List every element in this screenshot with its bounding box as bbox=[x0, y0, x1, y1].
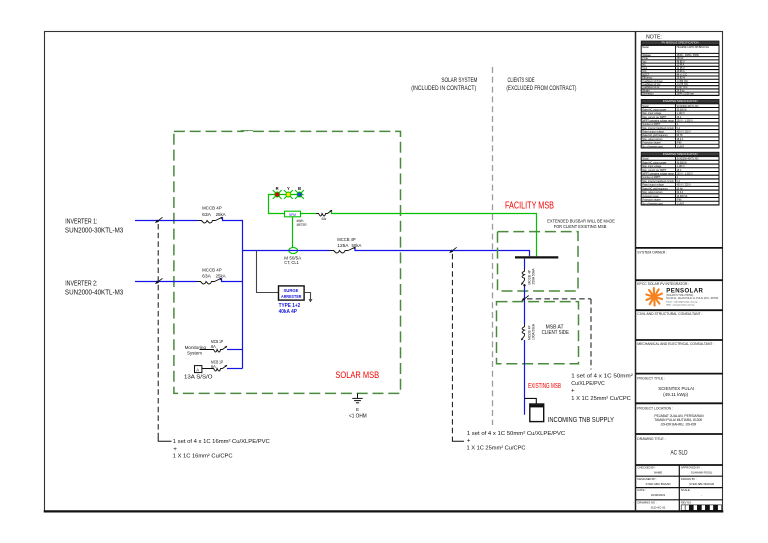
svg-text:26 A: 26 A bbox=[677, 116, 682, 119]
svg-text:CIVIL AND STRUCTURAL CONSULTAN: CIVIL AND STRUCTURAL CONSULTANT : bbox=[637, 312, 702, 316]
svg-text:CLIENT SIDE: CLIENT SIDE bbox=[542, 330, 570, 336]
svg-text:Max. current per MPPT: Max. current per MPPT bbox=[642, 169, 667, 172]
svg-text:64.3 A: 64.3 A bbox=[677, 191, 684, 194]
svg-text:(INCLUDED IN CONTRACT): (INCLUDED IN CONTRACT) bbox=[411, 86, 476, 92]
title block bottom grid bbox=[678, 465, 680, 512]
svg-text:400 V / 230 V: 400 V / 230 V bbox=[677, 132, 692, 134]
svg-text:MPPT operating voltage range: MPPT operating voltage range bbox=[642, 120, 674, 123]
svg-text:Rated AC output power: Rated AC output power bbox=[642, 161, 666, 164]
svg-text:SUN2000-30KTL-M3: SUN2000-30KTL-M3 bbox=[677, 106, 699, 108]
svg-text:CHECKED BY :: CHECKED BY : bbox=[637, 466, 656, 470]
svg-text:13A S/S/O: 13A S/S/O bbox=[184, 374, 213, 380]
svg-text:DRAWING TITLE :: DRAWING TITLE : bbox=[637, 437, 665, 441]
svg-text:50 Hz: 50 Hz bbox=[677, 135, 684, 137]
svg-text:Wattage: Wattage bbox=[642, 54, 651, 57]
svg-text:SUN2000-40KTL-M3: SUN2000-40KTL-M3 bbox=[677, 159, 699, 161]
svg-text:6A: 6A bbox=[322, 217, 327, 221]
svg-text:1 X 1C 25mm² Cu/CPC: 1 X 1C 25mm² Cu/CPC bbox=[467, 446, 526, 452]
svg-text:Model: Model bbox=[642, 47, 649, 49]
svg-text:A: A bbox=[196, 368, 199, 373]
svg-text:Pmax: Pmax bbox=[642, 58, 649, 60]
current transformer CT on main bus bbox=[289, 248, 298, 254]
svg-text:REV NO :: REV NO : bbox=[681, 500, 693, 504]
svg-text:Y: Y bbox=[287, 186, 290, 191]
svg-text:<1 OHM: <1 OHM bbox=[349, 413, 367, 419]
svg-text:METER: METER bbox=[297, 223, 307, 227]
svg-text:25kA: 25kA bbox=[216, 212, 227, 218]
revision scale bar bbox=[681, 505, 721, 510]
svg-text:1 UNIT: 1 UNIT bbox=[677, 203, 685, 205]
svg-text:Coefficient of Isc: Coefficient of Isc bbox=[642, 86, 660, 89]
svg-text:MCCB 4P: MCCB 4P bbox=[337, 237, 355, 243]
svg-text:SYED ABU BAKAR: SYED ABU BAKAR bbox=[646, 482, 671, 486]
svg-text:Vmp: Vmp bbox=[642, 68, 647, 70]
main AC bus solar MSB to facility MSB bbox=[243, 250, 330, 252]
svg-text:+: + bbox=[173, 446, 177, 453]
svg-text:JOHOR BAHRU, JOHOR: JOHOR BAHRU, JOHOR bbox=[660, 421, 696, 426]
svg-text:48.2 A: 48.2 A bbox=[677, 138, 684, 141]
svg-text:(49.11 kWp): (49.11 kWp) bbox=[663, 392, 689, 397]
socket outlet box bbox=[195, 366, 202, 373]
svg-text:44,000 VA: 44,000 VA bbox=[677, 195, 688, 198]
svg-text:1,100 V: 1,100 V bbox=[677, 113, 685, 115]
svg-text:Rated AC output power: Rated AC output power bbox=[642, 108, 666, 111]
note table: PV module specification bbox=[641, 41, 719, 96]
svg-text:System: System bbox=[187, 350, 202, 355]
cable marker on client feed bbox=[523, 296, 529, 301]
breaker MCCB 4P 63A 25kA (inverter 2) bbox=[197, 282, 215, 285]
svg-text:49.85 V: 49.85 V bbox=[677, 61, 685, 63]
svg-text:PV MODULE SPECIFICATION: PV MODULE SPECIFICATION bbox=[662, 41, 699, 45]
svg-text:2094 x 1038 mm: 2094 x 1038 mm bbox=[677, 94, 694, 96]
svg-text:Weight: Weight bbox=[642, 89, 650, 92]
svg-text:Number of MPPT: Number of MPPT bbox=[642, 176, 661, 179]
note table: inverter 2 specification bbox=[641, 152, 719, 205]
breaker MCCB 4P (client MSB incoming) bbox=[522, 324, 524, 336]
svg-text:FOR CLIENT EXISTING MSB: FOR CLIENT EXISTING MSB bbox=[554, 224, 607, 229]
svg-text:100A 50kA: 100A 50kA bbox=[532, 323, 536, 340]
svg-text:50 Hz: 50 Hz bbox=[677, 188, 684, 190]
surge arrester SPD box bbox=[279, 286, 305, 300]
svg-text:Max. current per MPPT: Max. current per MPPT bbox=[642, 116, 667, 119]
contract boundary dashed line bbox=[492, 67, 494, 425]
svg-text:IP66: IP66 bbox=[677, 143, 682, 145]
svg-text:(EXCLUDED FROM CONTRACT): (EXCLUDED FROM CONTRACT) bbox=[506, 86, 576, 92]
svg-text:SURGE: SURGE bbox=[284, 288, 299, 293]
svg-text:INCOMING TNB SUPPLY: INCOMING TNB SUPPLY bbox=[548, 415, 614, 424]
wire: incoming supply connector bbox=[525, 398, 537, 404]
breaker MCCB 4P (facility outgoing) bbox=[522, 269, 524, 281]
svg-text:400 V / 230 V: 400 V / 230 V bbox=[677, 185, 692, 187]
svg-text:INVERTER SPECIFICATION: INVERTER SPECIFICATION bbox=[663, 99, 698, 103]
svg-text:NOTE:: NOTE: bbox=[646, 35, 662, 41]
svg-text:IP66: IP66 bbox=[677, 200, 682, 202]
svg-text:SUN2000-40KTL-M3: SUN2000-40KTL-M3 bbox=[65, 287, 123, 296]
svg-text:+: + bbox=[571, 387, 575, 394]
svg-text:Apparent power: Apparent power bbox=[642, 195, 659, 198]
svg-text:EXTENDED BUSBAR WILL BE MADE: EXTENDED BUSBAR WILL BE MADE bbox=[547, 218, 615, 223]
fuse 6A on meter line bbox=[316, 214, 328, 217]
svg-text:Protection degree: Protection degree bbox=[642, 142, 661, 145]
svg-text:EXISTING MSB: EXISTING MSB bbox=[528, 383, 561, 390]
svg-text:B: B bbox=[298, 186, 301, 191]
svg-text:-0.275 %/C: -0.275 %/C bbox=[677, 84, 689, 86]
svg-text:6A: 6A bbox=[211, 344, 216, 349]
svg-text:MECHANICAL AND ELECTRICAL CONS: MECHANICAL AND ELECTRICAL CONSULTANT : bbox=[637, 342, 714, 346]
cable leader dashed line (inverter cables) bbox=[157, 224, 159, 437]
svg-text:Max. input voltage: Max. input voltage bbox=[642, 112, 662, 115]
svg-text:Max. inverter backfeed current: Max. inverter backfeed current bbox=[642, 127, 674, 130]
svg-text:200 V - 1,000 V: 200 V - 1,000 V bbox=[677, 121, 694, 123]
svg-text:CT, CL1: CT, CL1 bbox=[284, 260, 299, 265]
svg-text:450W - 460W / 450W: 450W - 460W / 450W bbox=[677, 55, 700, 57]
cable leader dashed (client cable) bbox=[527, 298, 591, 300]
svg-text:Email : sales@pensolar.com.my: Email : sales@pensolar.com.my bbox=[666, 300, 698, 303]
wire: surge arrester to earth with arrow bbox=[304, 293, 310, 300]
svg-text:INVERTER 2:: INVERTER 2: bbox=[65, 279, 97, 288]
svg-text:Web : www.pensolar.com.my: Web : www.pensolar.com.my bbox=[666, 303, 695, 306]
svg-text:25kA: 25kA bbox=[216, 274, 227, 280]
svg-text:Rated AC grid frequency: Rated AC grid frequency bbox=[642, 134, 668, 137]
svg-text:Max. input voltage: Max. input voltage bbox=[642, 165, 662, 168]
svg-text:DRAWING NO :: DRAWING NO : bbox=[637, 500, 656, 504]
svg-text:No. of inverter used: No. of inverter used bbox=[642, 202, 663, 205]
svg-text:R: R bbox=[276, 186, 279, 191]
svg-text:SOLAR MSB: SOLAR MSB bbox=[335, 369, 379, 380]
svg-text:1 set of 4 x 1C 50mm²: 1 set of 4 x 1C 50mm² bbox=[571, 374, 633, 380]
svg-text:APPROVED BY :: APPROVED BY : bbox=[681, 466, 702, 470]
svg-text:44 +/- 2 C: 44 +/- 2 C bbox=[677, 74, 688, 76]
svg-text:DATE :: DATE : bbox=[637, 488, 646, 492]
title block section divider lines bbox=[636, 247, 723, 249]
svg-text:NO 28-01, JALAN PULAI 11, PULA: NO 28-01, JALAN PULAI 11, PULAI JAYA, JO… bbox=[666, 297, 718, 300]
svg-text:0 A: 0 A bbox=[677, 127, 681, 130]
svg-text:EPCC SOLAR PV INTEGRATOR :: EPCC SOLAR PV INTEGRATOR : bbox=[637, 282, 689, 286]
svg-text:MCCB 4P: MCCB 4P bbox=[202, 268, 222, 274]
svg-text:+: + bbox=[467, 437, 471, 444]
svg-text:SUHAIMI ROSLI: SUHAIMI ROSLI bbox=[691, 471, 713, 475]
PENSOLAR company name and address bbox=[666, 288, 718, 307]
svg-text:PROJECT LOCATION :: PROJECT LOCATION : bbox=[637, 406, 673, 410]
svg-text:30,000 W: 30,000 W bbox=[677, 109, 688, 111]
breaker MCCB 4P 125A 50kA (main) bbox=[330, 251, 349, 254]
wire: inverter 2 AC output bbox=[135, 281, 197, 283]
svg-text:SOLAR SYSTEM: SOLAR SYSTEM bbox=[441, 77, 477, 84]
svg-text:1,100 V: 1,100 V bbox=[677, 166, 685, 168]
PENSOLAR company logo (orange starburst) bbox=[646, 288, 662, 306]
svg-text:AC SLD: AC SLD bbox=[671, 449, 688, 456]
svg-text:24.5 kg: 24.5 kg bbox=[677, 90, 685, 92]
svg-text:63A: 63A bbox=[202, 274, 212, 280]
svg-text:63A: 63A bbox=[202, 212, 212, 218]
kWh meter SPM box bbox=[285, 211, 301, 217]
incoming TNB supply symbol bbox=[530, 404, 544, 422]
wire: meter CT tap (green) bbox=[292, 217, 294, 248]
svg-text:Coefficient of Voc: Coefficient of Voc bbox=[642, 83, 661, 86]
indicator lamp R bbox=[273, 190, 282, 199]
facility MSB dashed enclosure (busbar) bbox=[498, 232, 579, 291]
svg-text:1 X 1C 25mm² Cu/CPC: 1 X 1C 25mm² Cu/CPC bbox=[571, 396, 631, 402]
svg-text:SYSTEM OWNER :: SYSTEM OWNER : bbox=[637, 250, 667, 254]
project title text bbox=[654, 386, 703, 456]
svg-text:200 V - 1,000 V: 200 V - 1,000 V bbox=[677, 174, 694, 176]
breaker MCB 1P (monitoring) bbox=[211, 350, 223, 353]
svg-text:1 set of 4 x 1C 50mm² Cu/XLPE/: 1 set of 4 x 1C 50mm² Cu/XLPE/PVC bbox=[467, 431, 566, 437]
svg-text:NOCT: NOCT bbox=[642, 74, 649, 76]
solar MSB vertical bus bbox=[242, 220, 244, 369]
svg-text:-: - bbox=[701, 493, 702, 497]
svg-text:10.96 A: 10.96 A bbox=[677, 70, 685, 73]
svg-text:SCALE :: SCALE : bbox=[681, 488, 692, 492]
breaker MCCB 4P 63A 25kA (inverter 1) bbox=[198, 221, 216, 224]
svg-text:250A 50kA: 250A 50kA bbox=[532, 268, 536, 285]
svg-text:11.46 A: 11.46 A bbox=[677, 64, 685, 67]
doubled dash artifact on enclosure top edge bbox=[244, 131, 253, 132]
svg-text:ARRESTER: ARRESTER bbox=[281, 294, 302, 299]
svg-text:FACILITY MSB: FACILITY MSB bbox=[505, 201, 554, 212]
SOLAR MSB dashed enclosure bbox=[174, 131, 401, 393]
svg-text:No. of inverter used: No. of inverter used bbox=[642, 145, 663, 148]
svg-text:PENSOLAR: PENSOLAR bbox=[666, 288, 703, 295]
svg-text:SLD-AC-01: SLD-AC-01 bbox=[651, 505, 666, 509]
svg-text:SYED ABU BAKAR: SYED ABU BAKAR bbox=[689, 482, 714, 486]
svg-text:INVERTER 1:: INVERTER 1: bbox=[65, 217, 97, 226]
client MSB dashed enclosure bbox=[497, 302, 579, 364]
cable marker on main bus bbox=[451, 247, 457, 252]
svg-text:Efficiency: Efficiency bbox=[642, 78, 653, 80]
svg-text:SPM: SPM bbox=[289, 213, 296, 217]
svg-text:01/06/2021: 01/06/2021 bbox=[651, 493, 666, 497]
svg-text:Rated output voltage: Rated output voltage bbox=[642, 131, 664, 134]
svg-text:DRAWN BY :: DRAWN BY : bbox=[681, 477, 697, 481]
svg-text:PROJECT TITLE :: PROJECT TITLE : bbox=[637, 377, 665, 381]
svg-text:MPPT operating voltage range: MPPT operating voltage range bbox=[642, 173, 674, 176]
cable marker on inverter 2 feed bbox=[156, 278, 162, 283]
svg-text:Max. inverter backfeed current: Max. inverter backfeed current bbox=[642, 180, 674, 183]
svg-text:1 UNIT: 1 UNIT bbox=[677, 146, 685, 148]
drawing frame border bbox=[45, 32, 723, 512]
svg-text:Protection degree: Protection degree bbox=[642, 199, 661, 202]
svg-text:Rated output voltage: Rated output voltage bbox=[642, 184, 664, 187]
cable marker on inverter 1 feed bbox=[156, 217, 162, 222]
wire: meter to facility (green) bbox=[301, 213, 317, 215]
svg-text:0.047 %/C: 0.047 %/C bbox=[677, 87, 688, 89]
svg-text:-0.350 %/C: -0.350 %/C bbox=[677, 81, 689, 83]
wire: socket outlet feed bbox=[202, 368, 211, 370]
svg-text:Model: Model bbox=[642, 159, 649, 161]
wire: lamp and meter circuit (green) bbox=[269, 195, 304, 214]
svg-text:NAME: NAME bbox=[654, 471, 662, 475]
busbar (extended) bbox=[515, 256, 558, 258]
svg-text:CLIENTS SIDE: CLIENTS SIDE bbox=[508, 77, 535, 84]
svg-text:Dimension: Dimension bbox=[642, 94, 654, 96]
svg-text:(SOLAR PV SOLUTIONS): (SOLAR PV SOLUTIONS) bbox=[666, 294, 693, 297]
svg-text:INVERTER SPECIFICATION: INVERTER SPECIFICATION bbox=[663, 152, 698, 156]
breaker MCB 1P (socket) bbox=[211, 369, 223, 372]
svg-text:125A: 125A bbox=[337, 243, 349, 249]
svg-text:41.05 V: 41.05 V bbox=[677, 68, 685, 70]
wire: monitoring system feed bbox=[200, 349, 212, 351]
svg-text:Max. output current: Max. output current bbox=[642, 191, 662, 194]
cable leader dashed line (main bus cable) bbox=[451, 254, 453, 437]
svg-text:Max. output current: Max. output current bbox=[642, 138, 662, 141]
svg-text:40kA 4P: 40kA 4P bbox=[279, 309, 298, 315]
wire: surge arrester tap bbox=[257, 251, 279, 293]
svg-text:450 W: 450 W bbox=[677, 58, 685, 60]
svg-text:DESIGNED BY :: DESIGNED BY : bbox=[637, 477, 657, 481]
svg-text:MCCB 4P: MCCB 4P bbox=[202, 206, 222, 212]
title block left border bbox=[635, 32, 637, 512]
svg-text:1 X 1C 16mm² Cu/CPC: 1 X 1C 16mm² Cu/CPC bbox=[173, 453, 233, 459]
svg-text:Cu/XLPE/PVC: Cu/XLPE/PVC bbox=[571, 381, 605, 387]
svg-text:Coefficient of Pmax: Coefficient of Pmax bbox=[642, 80, 663, 83]
note table: inverter 1 specification bbox=[641, 99, 719, 148]
indicator lamp B bbox=[295, 190, 304, 199]
svg-text:SUN2000-30KTL-M3: SUN2000-30KTL-M3 bbox=[65, 225, 123, 234]
junction dot bbox=[523, 284, 525, 286]
svg-text:50kA: 50kA bbox=[352, 243, 363, 249]
title block section labels bbox=[637, 250, 714, 440]
ground symbol (solar MSB earth) bbox=[352, 394, 362, 403]
svg-text:1 set of 4 x 1C 16mm² Cu/XLPE/: 1 set of 4 x 1C 16mm² Cu/XLPE/PVC bbox=[173, 439, 270, 445]
svg-text:E: E bbox=[356, 407, 359, 412]
svg-text:HELIENE 144HC M6 BIFACIAL: HELIENE 144HC M6 BIFACIAL bbox=[677, 46, 710, 49]
svg-text:Number of MPPT: Number of MPPT bbox=[642, 123, 661, 126]
indicator lamp Y bbox=[284, 190, 293, 199]
svg-text:26 A: 26 A bbox=[677, 169, 682, 172]
svg-text:Rated AC grid frequency: Rated AC grid frequency bbox=[642, 187, 668, 190]
svg-text:Model: Model bbox=[642, 106, 649, 108]
svg-text:0 A: 0 A bbox=[677, 180, 681, 183]
svg-text:40,000 W: 40,000 W bbox=[677, 162, 688, 164]
wire: inverter 1 AC output bbox=[135, 220, 198, 222]
svg-text:20.60 %: 20.60 % bbox=[677, 78, 686, 80]
wire: facility MSB outgoing feed bbox=[524, 259, 526, 269]
